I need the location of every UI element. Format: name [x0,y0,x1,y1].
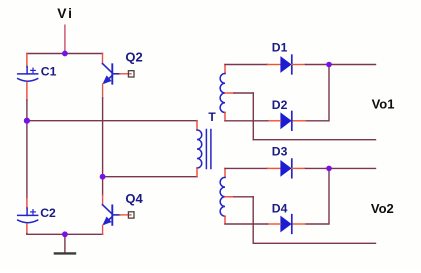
wire D1 cathode to junction [306,64,330,66]
wire ground stub [64,234,66,253]
svg-text:Q4: Q4 [125,191,143,206]
wire Vo2 top rail [329,167,376,169]
wire mid bus (cap midpoint to transformer primary top) [27,120,197,122]
wire left rail middle (C1 to C2) [26,100,28,198]
svg-text:C2: C2 [40,206,56,220]
wire D4 cathode riser [306,168,330,224]
capacitor C2 [18,208,38,223]
diode D2 [280,112,291,131]
transformer T primary bottom stub (red) [196,168,198,177]
transformer T primary top stub (red) [196,121,198,130]
wire D2 anode segment [225,120,268,122]
wire D4 cathode pin (red) [292,223,306,225]
transformer secondary 2 winding [220,177,225,216]
wire D2 cathode pin (red) [292,120,306,122]
transformer secondary 1 winding [220,74,225,113]
transformer secondary 2 bottom stub (red) [224,216,226,224]
ground [55,252,75,254]
wire bottom bus [27,233,103,236]
transformer T core [206,130,211,169]
junction dot at Vi / top bus [62,51,68,57]
svg-text:Vo1: Vo1 [372,96,395,111]
port square at Q2 base [128,71,134,77]
wire D3 anode segment [225,167,268,169]
wire D2 anode pin (red) [268,120,281,122]
wire D4 anode pin (red) [268,223,281,225]
svg-text:D4: D4 [272,202,288,216]
junction dot at D1/D2 cathodes [326,62,332,68]
transistor Q2 [102,64,131,85]
junction dot at ground / bottom bus [62,231,68,237]
wire D2 cathode riser [306,65,330,121]
wire left rail upper (top bus to C1) [26,54,28,68]
wire Vi stub [64,25,66,53]
wire Vo1 bottom rail [253,139,375,141]
wire secondary 1 center tap [225,92,234,94]
wire D1 anode segment [225,64,268,66]
transformer secondary 1 top stub (red) [224,65,226,74]
svg-text:Vi: Vi [57,6,74,21]
diode D4 [280,215,291,234]
wire D3 anode pin (red) [268,167,281,169]
wire Q4 collector pin [102,177,104,195]
junction dot at left rail / mid bus [24,118,30,124]
wire D1 anode pin (red) [268,64,281,66]
svg-text:Vo2: Vo2 [371,201,394,216]
transformer secondary 1 bottom stub (red) [224,113,226,121]
port square at Q4 base [128,212,134,218]
wire C1 bottom pin (red) [26,83,28,101]
wire D3 cathode to junction [306,167,330,169]
diode D3 [280,159,291,178]
wire top bus [27,53,103,55]
wire Q4 emitter pin [102,225,104,234]
wire D1 cathode pin (red) [292,64,306,66]
wire C2 top pin (red) [26,198,28,209]
svg-text:D1: D1 [272,41,288,55]
transformer secondary 2 top stub (red) [224,168,226,177]
junction dot at D3/D4 cathodes [326,166,332,172]
capacitor C1 [18,67,38,82]
svg-text:D2: D2 [272,98,288,112]
junction dot at trunk / primary bottom wire [100,174,106,180]
wire Vo1 top rail [329,64,376,66]
svg-text:D3: D3 [272,145,288,159]
wire D4 anode segment [225,223,268,225]
wire secondary 2 center tap [225,196,234,198]
wire C2 bottom pin (red) [26,224,28,234]
wire D3 cathode pin (red) [292,167,306,169]
wire primary bottom bus [103,176,197,178]
wire center tap 2 vertical [252,197,254,244]
wire Q2 collector pin [102,54,104,64]
transistor Q4 [102,205,131,226]
svg-text:Q2: Q2 [125,49,142,64]
transformer T primary winding [197,130,202,168]
svg-text:T: T [208,110,216,124]
svg-text:C1: C1 [41,64,57,78]
wire Q2 emitter / Q4 collector trunk [102,84,104,98]
wire Vo2 bottom rail [253,242,375,244]
diode D1 [280,55,291,74]
wire center tap 1 vertical [252,93,254,140]
